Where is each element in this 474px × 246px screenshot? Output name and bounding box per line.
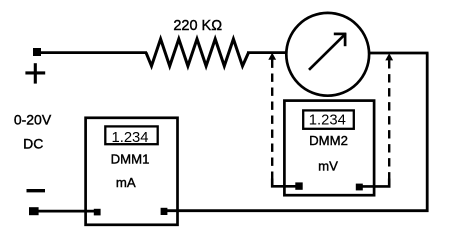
meter needle arrow [309,33,346,70]
DMM1 box [86,118,178,225]
minus symbol [27,189,46,192]
wire from resistor to meter [247,51,287,54]
resistor R1 220 KOhm zigzag [146,39,249,66]
svg-text:DC: DC [23,135,43,151]
svg-text:DMM1: DMM1 [111,151,150,166]
svg-text:DMM2: DMM2 [309,133,348,148]
svg-text:mV: mV [318,158,338,173]
svg-text:0-20V: 0-20V [14,111,52,127]
wire right vertical [426,53,429,212]
wire from negative terminal to DMM1 left terminal [38,210,96,213]
plus symbol [25,63,45,83]
svg-text:1.234: 1.234 [309,113,346,129]
dashed sense line left arrowhead [268,53,276,60]
dashed sense line left [271,60,273,181]
dashed sense line right corner to DMM2 right terminal [358,179,389,187]
svg-text:220 KΩ: 220 KΩ [173,18,222,34]
DMM1 terminal left [94,209,101,216]
wire from positive terminal to resistor [40,51,147,54]
DMM1 display [105,126,157,144]
DMM2 display [303,110,354,128]
wire from DMM1 right terminal along bottom to right side [166,209,429,212]
DMM2 box [284,101,374,196]
dashed sense line left corner to DMM2 left terminal [272,179,297,187]
DMM2 terminal right [356,184,363,191]
wire from right vertical to meter [369,52,429,55]
svg-text:mA: mA [116,175,136,190]
meter M1 circle [286,13,369,96]
terminal source negative [29,207,39,215]
DMM1 terminal right [161,208,168,215]
DMM2 terminal left [295,182,302,189]
dashed sense line right arrowhead [385,53,393,60]
terminal source positive [33,48,41,56]
dashed sense line right [388,60,390,180]
svg-text:1.234: 1.234 [111,130,148,146]
